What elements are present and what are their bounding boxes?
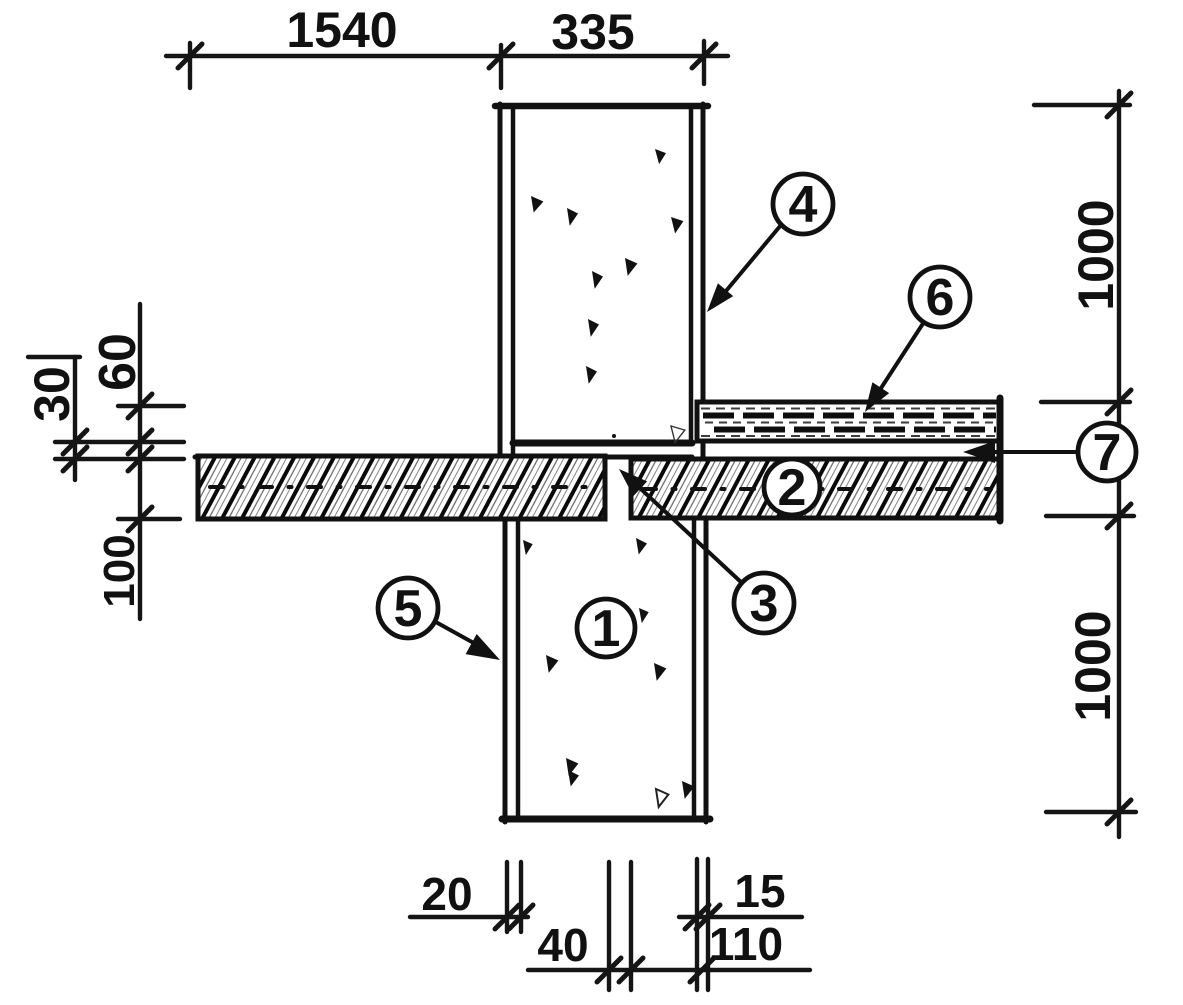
svg-text:4: 4	[789, 176, 818, 234]
svg-text:1000: 1000	[1068, 199, 1124, 310]
svg-text:2: 2	[778, 459, 807, 517]
svg-text:5: 5	[394, 580, 423, 638]
svg-text:3: 3	[750, 575, 779, 633]
svg-text:7: 7	[1093, 424, 1122, 482]
svg-text:15: 15	[734, 865, 785, 917]
svg-text:20: 20	[421, 868, 472, 920]
svg-text:1: 1	[592, 600, 621, 658]
svg-text:6: 6	[926, 269, 955, 327]
svg-text:100: 100	[95, 534, 144, 607]
svg-text:40: 40	[537, 919, 588, 971]
svg-text:110: 110	[709, 918, 783, 970]
svg-text:1540: 1540	[286, 2, 397, 58]
svg-text:1000: 1000	[1065, 610, 1121, 721]
svg-text:60: 60	[89, 333, 147, 391]
svg-text:335: 335	[551, 4, 634, 60]
svg-text:30: 30	[24, 366, 80, 422]
